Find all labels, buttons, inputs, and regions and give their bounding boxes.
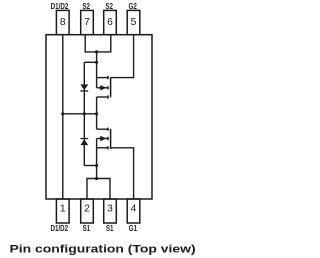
svg-text:D1/D2: D1/D2 [50, 224, 68, 233]
svg-text:G2: G2 [129, 3, 137, 12]
wire gate G2 pin 5 [111, 35, 134, 78]
junction node S2 bar [95, 50, 98, 53]
IC body outline [46, 35, 152, 199]
wire common drain rail [63, 113, 97, 115]
pin 8 box [56, 10, 69, 34]
transistor Q1 source stub [97, 147, 108, 149]
junction node diode D2 top [95, 61, 98, 64]
junction node S1 bar [95, 177, 98, 180]
svg-text:4: 4 [131, 204, 137, 215]
pin 6 box [104, 10, 117, 34]
wire S2 pins 7 and 6 bar [85, 35, 111, 52]
wire diode D2 top link [84, 61, 96, 63]
transistor Q2 body arrow [100, 85, 106, 90]
diode D2 body diode [80, 84, 88, 90]
pin 7 box [81, 10, 94, 34]
junction node diode D1 bottom [95, 164, 98, 167]
transistor Q1 body arrow [100, 136, 106, 141]
wire diode D1 branch [83, 114, 85, 166]
wire diode D1 bottom link [84, 165, 96, 167]
wire diode D2 branch [83, 62, 85, 114]
wire Q2 drain to rail [96, 97, 98, 129]
junction node rail left [61, 112, 64, 115]
junction node rail diode [83, 112, 86, 115]
svg-text:D1/D2: D1/D2 [51, 3, 69, 12]
svg-text:G1: G1 [129, 224, 137, 233]
transistor Q2 drain stub [97, 96, 108, 98]
pin 5 box [127, 10, 140, 34]
transistor Q2 gate bar [110, 77, 112, 97]
wire S2 down link [96, 52, 98, 88]
pin 4 box [127, 199, 140, 223]
pin 1 box [56, 199, 69, 223]
svg-text:6: 6 [107, 17, 113, 28]
transistor Q2 channel dashes [107, 76, 109, 99]
pin 2 box [81, 199, 94, 223]
wire S1 pins 2 and 3 bar [87, 179, 110, 200]
wire Q1 body source tie [96, 139, 98, 179]
transistor Q1 channel dashes [107, 128, 109, 150]
wire common drain left rail pins 8 to 1 [62, 35, 64, 199]
svg-text:2: 2 [84, 204, 90, 215]
transistor Q1 body stub [97, 138, 108, 140]
svg-text:5: 5 [131, 17, 137, 28]
svg-text:S2: S2 [105, 3, 113, 12]
svg-text:3: 3 [107, 204, 113, 215]
transistor Q2 body stub [97, 87, 108, 89]
wire gate G1 pin 4 [111, 148, 134, 199]
junction node rail drain [95, 112, 98, 115]
svg-text:8: 8 [60, 17, 66, 28]
transistor Q1 gate bar [110, 129, 112, 149]
svg-text:S1: S1 [83, 224, 91, 233]
transistor Q2 source stub [97, 77, 108, 79]
pin 3 box [104, 199, 117, 223]
svg-text:S1: S1 [106, 224, 114, 233]
svg-text:S2: S2 [82, 3, 90, 12]
svg-text:7: 7 [84, 17, 90, 28]
transistor Q1 drain stub [97, 128, 108, 130]
diode D1 body diode [80, 138, 88, 139]
svg-text:1: 1 [60, 204, 66, 215]
svg-text:Pin configuration (Top view): Pin configuration (Top view) [10, 243, 196, 255]
